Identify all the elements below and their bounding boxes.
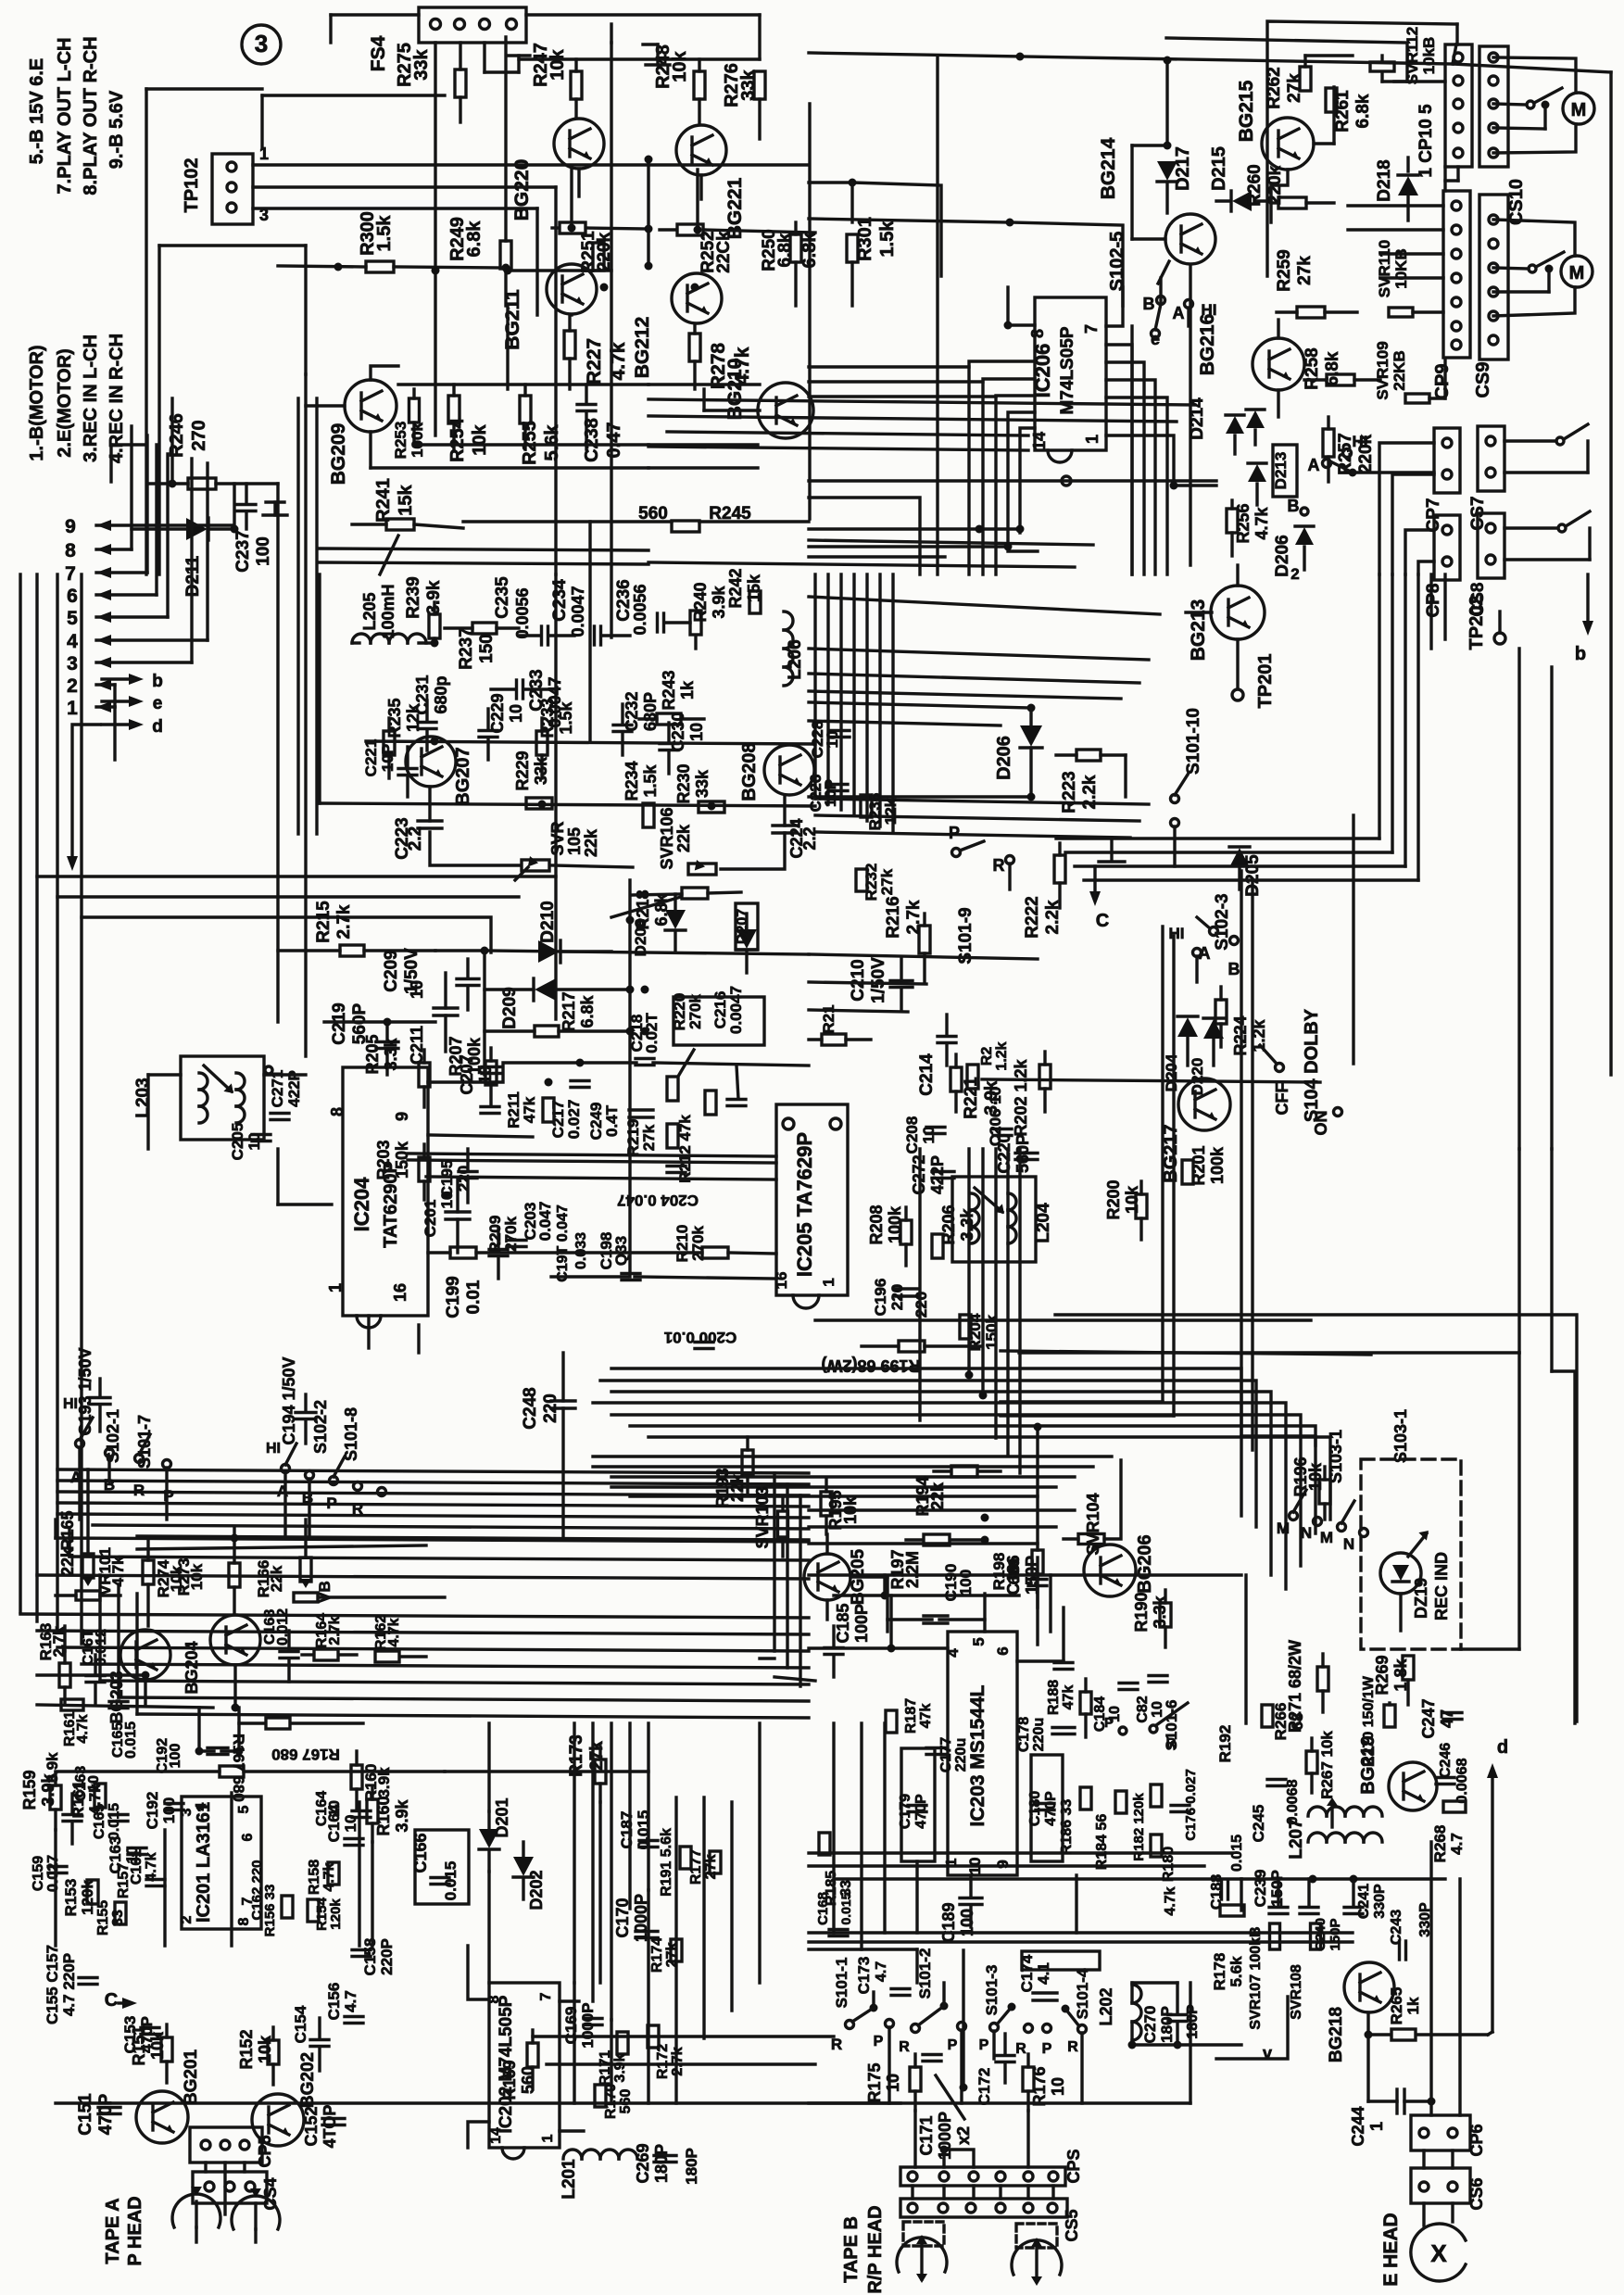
svg-text:2: 2 — [179, 1915, 195, 1923]
wire F staircase — [920, 1149, 1020, 1473]
svg-text:R188: R188 — [1046, 1680, 1062, 1715]
ic IC205 — [773, 1104, 848, 1308]
svg-text:C162 220: C162 220 — [249, 1860, 265, 1920]
capacitor C196 — [872, 1279, 930, 1318]
svg-text:0.0047: 0.0047 — [569, 586, 587, 637]
svg-text:0.01: 0.01 — [464, 1280, 484, 1314]
switch S104 DOLBY — [1260, 815, 1353, 1136]
capacitor C163 — [107, 1836, 146, 1874]
svg-text:HI: HI — [266, 1441, 281, 1456]
svg-text:150: 150 — [477, 634, 497, 663]
svg-text:4.7k: 4.7k — [75, 1714, 91, 1743]
svg-text:C151: C151 — [76, 2093, 95, 2136]
wire G bus horiz — [56, 1772, 648, 1946]
svg-text:6: 6 — [67, 586, 78, 607]
capacitor C244 — [1349, 2035, 1436, 2147]
svg-text:P: P — [874, 2034, 884, 2049]
resistor R219 — [809, 1004, 871, 1045]
svg-text:R267 10k: R267 10k — [1318, 1731, 1336, 1799]
svg-text:P: P — [949, 824, 960, 842]
svg-text:S102-5: S102-5 — [1107, 232, 1127, 292]
svg-text:R180: R180 — [1161, 1847, 1177, 1882]
svg-text:IC206: IC206 — [1031, 344, 1054, 398]
svg-text:B: B — [1228, 960, 1240, 978]
svg-text:C158: C158 — [361, 1938, 379, 1976]
svg-text:R255: R255 — [520, 421, 540, 465]
wire bus mid — [435, 271, 611, 435]
svg-text:C152: C152 — [302, 2106, 321, 2146]
switch S102-2 — [266, 1400, 386, 1538]
wire G ic202 fan — [468, 1946, 584, 2148]
resistor R215 — [278, 901, 435, 956]
capacitor C237 — [233, 484, 287, 573]
wire row800 — [366, 738, 815, 746]
box C180 — [1027, 1755, 1063, 1861]
svg-text:L201: L201 — [560, 2159, 579, 2200]
svg-text:10k: 10k — [670, 50, 690, 82]
wire r167 — [56, 1734, 445, 1802]
resistor R187 — [886, 1698, 934, 1734]
label C — [105, 1990, 137, 2011]
capacitor C200 — [664, 1329, 736, 1349]
svg-text:R175: R175 — [865, 2062, 884, 2102]
svg-text:2: 2 — [67, 675, 78, 697]
svg-text:C246: C246 — [1438, 1743, 1454, 1778]
capacitor C177 — [926, 1737, 969, 1772]
svg-text:7: 7 — [65, 563, 76, 585]
svg-text:R200: R200 — [1104, 1179, 1123, 1219]
svg-text:R234: R234 — [623, 761, 641, 801]
connector CS9 — [1473, 195, 1508, 397]
ground sym — [485, 43, 530, 72]
svg-text:33: 33 — [110, 1910, 126, 1926]
resistor R206 — [932, 1204, 976, 1258]
svg-text:R254: R254 — [447, 417, 468, 462]
wire bg209 c — [306, 366, 398, 406]
svg-text:R266: R266 — [1272, 1703, 1290, 1741]
capacitor C187 — [618, 1810, 658, 1850]
svg-text:R: R — [352, 1500, 363, 1518]
svg-text:R258: R258 — [1303, 347, 1322, 389]
resistor R234 — [623, 761, 660, 827]
svg-text:100: 100 — [168, 1744, 183, 1769]
diode D220 — [1188, 1018, 1224, 1095]
svg-text:4: 4 — [194, 1802, 209, 1810]
capacitor C217b — [549, 1081, 589, 1140]
svg-text:0.4T: 0.4T — [603, 1104, 621, 1137]
wire cp5 stubs — [913, 2111, 1053, 2199]
wire s104 col — [1001, 871, 1371, 1450]
svg-text:R261: R261 — [1333, 90, 1353, 132]
potentiometer SVR107 — [1248, 1923, 1280, 2030]
svg-text:BG203: BG203 — [107, 1671, 126, 1723]
svg-text:27k: 27k — [587, 1741, 607, 1771]
svg-text:1 CP10 5: 1 CP10 5 — [1416, 104, 1436, 178]
svg-text:M: M — [1569, 263, 1585, 284]
wire H left col — [834, 1723, 885, 1949]
svg-text:D215: D215 — [1209, 146, 1229, 191]
svg-text:SVR106: SVR106 — [658, 807, 676, 869]
svg-text:C237: C237 — [233, 530, 253, 572]
resistor R266 — [1262, 1703, 1306, 1741]
svg-text:10: 10 — [342, 1815, 359, 1833]
capacitor C249 — [587, 1103, 653, 1141]
svg-text:22k: 22k — [728, 1473, 747, 1502]
svg-text:10k: 10k — [470, 423, 490, 455]
resistor R258 — [1303, 347, 1380, 389]
svg-text:150k: 150k — [983, 1315, 1001, 1350]
svg-text:D206: D206 — [1273, 535, 1292, 576]
junctions mid — [432, 267, 699, 292]
sheet number 3 — [242, 25, 281, 64]
transformer L204 — [952, 1177, 1053, 1262]
capacitor C228 — [809, 721, 850, 759]
capacitor C216 — [674, 986, 764, 1106]
svg-text:100k: 100k — [465, 1037, 484, 1075]
svg-text:180P: 180P — [652, 2144, 671, 2183]
capacitor C199 — [444, 1228, 508, 1318]
svg-text:CS4: CS4 — [261, 2177, 280, 2210]
svg-text:S101-3: S101-3 — [983, 1965, 1001, 2016]
ground C — [1089, 839, 1125, 931]
transistor BG213 — [1188, 586, 1265, 661]
capacitor C184 — [1092, 1683, 1138, 1733]
svg-text:10P: 10P — [379, 744, 397, 772]
svg-text:C: C — [1096, 911, 1109, 931]
svg-text:Q33: Q33 — [612, 1236, 630, 1266]
svg-text:1000P: 1000P — [632, 1894, 650, 1942]
svg-text:M74LS05P: M74LS05P — [1058, 326, 1077, 414]
capacitor C168 — [262, 1608, 298, 1682]
resistor R163 — [37, 1623, 70, 1705]
svg-text:R157: R157 — [116, 1863, 132, 1898]
switch S101-3 — [948, 1965, 1052, 2057]
resistor R204 — [960, 1313, 1001, 1351]
svg-text:R203: R203 — [374, 1140, 393, 1179]
svg-text:N: N — [1343, 1535, 1354, 1553]
transistor BG221 — [676, 125, 746, 239]
svg-text:DZ19: DZ19 — [1412, 1578, 1430, 1619]
svg-text:100k: 100k — [1208, 1146, 1227, 1184]
svg-text:TP102: TP102 — [182, 158, 202, 213]
ic IC203 — [944, 1632, 1017, 1875]
wire bg215 e — [1271, 87, 1334, 222]
svg-text:27k: 27k — [1295, 256, 1315, 285]
connector CP6 — [1411, 2115, 1486, 2157]
resistor R165 — [58, 1469, 94, 1586]
capacitor C232 — [613, 691, 660, 755]
svg-text:C200 0.01: C200 0.01 — [664, 1329, 736, 1346]
resistor R229 — [513, 750, 552, 809]
svg-text:C154: C154 — [292, 2005, 309, 2043]
resistor R271 — [1286, 1640, 1328, 1733]
diode D204 — [1163, 1016, 1198, 1091]
svg-text:b: b — [152, 672, 163, 691]
wire G verts down — [574, 1723, 760, 2103]
svg-text:150P: 150P — [1328, 1918, 1343, 1950]
svg-text:1.5k: 1.5k — [374, 215, 395, 252]
svg-text:12k: 12k — [882, 798, 900, 825]
transistor BG217 — [1161, 1078, 1230, 1183]
svg-text:22Ck: 22Ck — [714, 231, 734, 273]
resistor R267 — [1306, 1731, 1336, 1799]
resistor R208 — [867, 1204, 912, 1266]
svg-text:C221: C221 — [362, 739, 380, 777]
svg-text:R182 120k: R182 120k — [1131, 1793, 1147, 1861]
resistor R259 — [1275, 249, 1357, 318]
wire fanB — [809, 367, 996, 397]
svg-text:422P: 422P — [928, 1155, 947, 1194]
resistor R276 — [722, 63, 765, 139]
svg-text:R167 680: R167 680 — [271, 1746, 340, 1763]
svg-text:C196: C196 — [872, 1279, 889, 1317]
svg-text:1.5k: 1.5k — [557, 701, 575, 735]
transistor BG216 — [1197, 314, 1304, 390]
capacitor C218 — [628, 986, 661, 1066]
svg-text:R/P HEAD: R/P HEAD — [865, 2205, 886, 2293]
svg-text:33k: 33k — [532, 756, 550, 785]
svg-text:C248: C248 — [521, 1387, 540, 1429]
wire tp102-1 — [253, 163, 809, 166]
capacitor C176 — [1171, 1769, 1199, 1841]
svg-text:10k: 10k — [256, 2035, 274, 2063]
svg-text:C192: C192 — [144, 1792, 161, 1830]
wire left frame3 — [159, 246, 306, 574]
wire r247 top — [519, 57, 760, 60]
svg-text:C269: C269 — [634, 2143, 652, 2183]
wire D right more — [1431, 574, 1552, 1149]
capacitor C152 — [302, 2105, 345, 2149]
svg-text:S101-4: S101-4 — [1074, 1968, 1091, 2019]
svg-text:SVR109: SVR109 — [1374, 341, 1391, 399]
svg-text:4.7: 4.7 — [342, 1990, 359, 2012]
svg-text:C168: C168 — [815, 1892, 831, 1925]
svg-text:1: 1 — [1083, 435, 1102, 444]
svg-text:C241: C241 — [1356, 1884, 1372, 1919]
resistor R173 — [567, 1734, 607, 1802]
svg-text:100k: 100k — [409, 422, 426, 458]
head TAPE A — [103, 2187, 280, 2266]
wire E verts2 — [65, 1626, 489, 1811]
svg-text:C232: C232 — [623, 691, 641, 731]
svg-text:R259: R259 — [1275, 249, 1294, 291]
svg-text:b: b — [1575, 644, 1586, 664]
resistor R202 — [1012, 1052, 1051, 1137]
svg-text:1k: 1k — [1404, 1997, 1422, 2014]
svg-text:R161: R161 — [69, 1781, 87, 1819]
svg-text:100: 100 — [957, 1570, 975, 1595]
resistor R256 — [1227, 500, 1271, 556]
resistor R167 — [239, 1718, 363, 1763]
svg-text:6.8k: 6.8k — [464, 221, 485, 258]
svg-text:SVR107 100kB: SVR107 100kB — [1248, 1926, 1264, 2029]
svg-text:4TOP: 4TOP — [321, 2105, 339, 2149]
svg-text:C230: C230 — [669, 712, 687, 751]
transistor BG210 — [704, 359, 813, 438]
svg-text:4.7k: 4.7k — [1163, 1886, 1178, 1915]
diode D209 — [485, 951, 630, 1029]
resistor R275 — [395, 43, 466, 122]
svg-text:L202: L202 — [1097, 1987, 1115, 2025]
connector CP9 — [1432, 191, 1470, 399]
resistor R159 — [20, 1770, 61, 1830]
svg-text:2.2M: 2.2M — [903, 1551, 922, 1588]
svg-text:IC205 TA7629P: IC205 TA7629P — [793, 1132, 816, 1277]
svg-text:C220: C220 — [995, 1133, 1013, 1173]
resistor R200 — [1104, 1179, 1147, 1240]
wire x660 extend — [556, 43, 611, 1019]
svg-text:S103-1: S103-1 — [1391, 1409, 1410, 1463]
capacitor C186b — [1054, 1663, 1073, 1670]
transistor BG219 — [1358, 1735, 1437, 1810]
svg-text:C210: C210 — [849, 959, 868, 1001]
transistor BG205 — [804, 1548, 868, 1605]
wire ic206 right pins — [1106, 287, 1216, 574]
wire tank — [1128, 1983, 1242, 2049]
wire F mid rows — [809, 1510, 1075, 1544]
resistor R160 — [367, 1786, 411, 1842]
capacitor C241 — [1344, 1884, 1388, 1919]
capacitor C221 — [362, 739, 417, 797]
capacitor C190 — [888, 1564, 985, 1623]
capacitor C201 — [422, 1179, 470, 1253]
svg-text:220P: 220P — [378, 1938, 396, 1975]
svg-text:BG216: BG216 — [1197, 314, 1218, 376]
svg-text:R2: R2 — [979, 1047, 995, 1066]
svg-text:d: d — [152, 717, 163, 737]
capacitor C198 — [598, 1232, 640, 1280]
potentiometer VB — [294, 1581, 445, 1603]
svg-text:10: 10 — [920, 1127, 938, 1144]
wire r274 top — [148, 1534, 306, 1543]
wire tapeA — [196, 2163, 256, 2242]
svg-text:2.7k: 2.7k — [904, 900, 924, 934]
svg-text:C234: C234 — [550, 579, 570, 622]
resistor R300 — [278, 211, 510, 272]
capacitor C165 — [92, 1803, 128, 1840]
transistor BG203 — [107, 1630, 170, 1724]
resistor R184 — [1094, 1791, 1127, 1870]
switch m2 — [1493, 252, 1564, 292]
svg-text:S101-1: S101-1 — [833, 1958, 850, 2009]
resistor R222 — [1023, 843, 1065, 939]
svg-text:47k: 47k — [918, 1704, 934, 1729]
svg-text:560: 560 — [519, 2066, 537, 2094]
svg-text:CS9: CS9 — [1473, 362, 1493, 398]
svg-text:C243: C243 — [1389, 1910, 1404, 1945]
switch recpb — [1308, 433, 1435, 477]
svg-text:1: 1 — [944, 1858, 960, 1866]
svg-text:560: 560 — [618, 2089, 634, 2114]
wire left frame2 — [146, 89, 262, 574]
svg-text:1: 1 — [1367, 2122, 1386, 2131]
svg-text:1.-B(MOTOR): 1.-B(MOTOR) — [27, 345, 47, 460]
wire left stair — [113, 685, 116, 760]
resistor R201 — [1182, 1145, 1227, 1185]
capacitor C178 — [1016, 1717, 1075, 1752]
resistor R209 — [450, 1216, 520, 1258]
svg-text:IC201 LA3161: IC201 LA3161 — [194, 1802, 214, 1923]
svg-text:4.7k: 4.7k — [321, 1862, 337, 1891]
wire band3 verts — [56, 1519, 137, 1714]
svg-text:CFF: CFF — [1273, 1083, 1291, 1116]
svg-text:C201: C201 — [422, 1200, 439, 1238]
inductor L201 — [560, 2150, 637, 2200]
svg-text:C194 1/50V: C194 1/50V — [280, 1356, 298, 1444]
svg-text:R205: R205 — [363, 1034, 382, 1074]
svg-text:15k: 15k — [396, 484, 416, 515]
svg-text:22k: 22k — [674, 824, 693, 852]
svg-text:9: 9 — [65, 516, 76, 537]
svg-text:C164: C164 — [325, 1804, 343, 1842]
capacitor C226 — [807, 775, 848, 813]
capacitor C231 — [413, 675, 450, 750]
svg-text:47k: 47k — [1061, 1685, 1076, 1710]
svg-text:220: 220 — [541, 1393, 560, 1423]
wire d row — [982, 1079, 1320, 1082]
svg-text:9: 9 — [393, 1112, 411, 1121]
svg-text:L203: L203 — [133, 1078, 153, 1117]
resistor R240 — [690, 582, 728, 649]
wire d217 v — [1132, 57, 1172, 150]
svg-text:10k: 10k — [148, 2031, 167, 2060]
svg-text:10: 10 — [966, 1858, 984, 1875]
capacitor C210 — [849, 957, 913, 1010]
svg-text:R190: R190 — [1132, 1592, 1151, 1632]
svg-text:C270: C270 — [1141, 2006, 1159, 2044]
svg-text:C244: C244 — [1349, 2106, 1367, 2146]
svg-text:P HEAD: P HEAD — [125, 2196, 145, 2265]
wire ic203 pins — [809, 1575, 1064, 1661]
capacitor C174 — [1018, 1954, 1057, 2000]
transistor BG220 — [511, 119, 604, 221]
svg-text:BG201: BG201 — [182, 2049, 201, 2105]
wire x330 extend — [278, 374, 306, 1056]
svg-text:10: 10 — [687, 723, 706, 741]
svg-text:R170: R170 — [603, 2084, 619, 2119]
capacitor C224b — [721, 795, 819, 869]
resistor R251 — [552, 222, 653, 273]
svg-text:8.PLAY OUT R-CH: 8.PLAY OUT R-CH — [81, 36, 101, 195]
svg-text:14: 14 — [1030, 432, 1049, 450]
svg-text:33k: 33k — [738, 69, 759, 100]
capacitor C170 — [613, 1894, 658, 1942]
transistor BG204 — [183, 1615, 260, 1695]
wire cp7 elbows — [1379, 443, 1434, 574]
potentiometer SVR110 — [1376, 240, 1443, 317]
svg-text:1/50V: 1/50V — [869, 957, 888, 1003]
arrows 7-9 — [65, 426, 232, 585]
svg-text:D217: D217 — [1173, 146, 1193, 191]
svg-text:C199: C199 — [444, 1276, 463, 1318]
resistor R169 — [500, 2030, 538, 2100]
svg-text:P: P — [979, 2037, 989, 2053]
capacitor C207 — [458, 1054, 500, 1094]
capacitor C151 — [76, 2093, 120, 2136]
svg-text:0.0056: 0.0056 — [513, 587, 532, 638]
wire c219 row — [324, 1020, 435, 1023]
capacitor C211b — [408, 973, 458, 1065]
svg-text:S101-10: S101-10 — [1184, 708, 1203, 775]
svg-text:1: 1 — [540, 2134, 556, 2142]
wire h2028 — [1241, 1875, 1445, 1911]
capacitor C189 — [939, 1875, 982, 1943]
svg-text:105: 105 — [565, 827, 584, 855]
svg-text:S101-8: S101-8 — [342, 1407, 360, 1461]
svg-text:180P: 180P — [1158, 2006, 1176, 2043]
capacitor C246 — [1436, 1743, 1470, 1804]
svg-text:0.0068: 0.0068 — [1285, 1779, 1301, 1824]
